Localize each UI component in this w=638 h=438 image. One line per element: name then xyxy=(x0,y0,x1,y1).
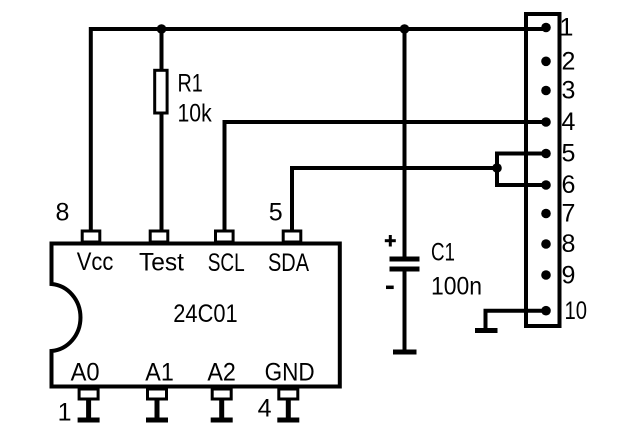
svg-text:Test: Test xyxy=(139,249,184,277)
svg-text:SCL: SCL xyxy=(208,249,245,277)
svg-text:A2: A2 xyxy=(207,359,236,387)
svg-text:8: 8 xyxy=(56,199,70,227)
svg-text:10: 10 xyxy=(565,297,588,325)
svg-text:4: 4 xyxy=(562,108,576,136)
svg-text:GND: GND xyxy=(265,359,315,387)
svg-text:A1: A1 xyxy=(145,359,174,387)
svg-text:7: 7 xyxy=(562,200,576,228)
svg-text:5: 5 xyxy=(269,199,283,227)
svg-text:100n: 100n xyxy=(431,273,482,301)
svg-text:5: 5 xyxy=(562,140,576,168)
svg-text:24C01: 24C01 xyxy=(173,300,237,328)
svg-text:3: 3 xyxy=(562,77,576,105)
svg-text:SDA: SDA xyxy=(268,249,309,277)
svg-text:2: 2 xyxy=(562,48,576,76)
svg-text:R1: R1 xyxy=(178,70,203,98)
svg-text:6: 6 xyxy=(562,171,576,199)
svg-text:A0: A0 xyxy=(71,359,100,387)
svg-text:1: 1 xyxy=(560,14,574,42)
svg-text:Vcc: Vcc xyxy=(77,248,114,276)
svg-text:8: 8 xyxy=(562,230,576,258)
svg-text:9: 9 xyxy=(562,262,576,290)
svg-text:10k: 10k xyxy=(178,100,213,128)
svg-text:4: 4 xyxy=(258,395,272,423)
svg-text:C1: C1 xyxy=(431,239,455,267)
svg-text:1: 1 xyxy=(58,399,72,427)
